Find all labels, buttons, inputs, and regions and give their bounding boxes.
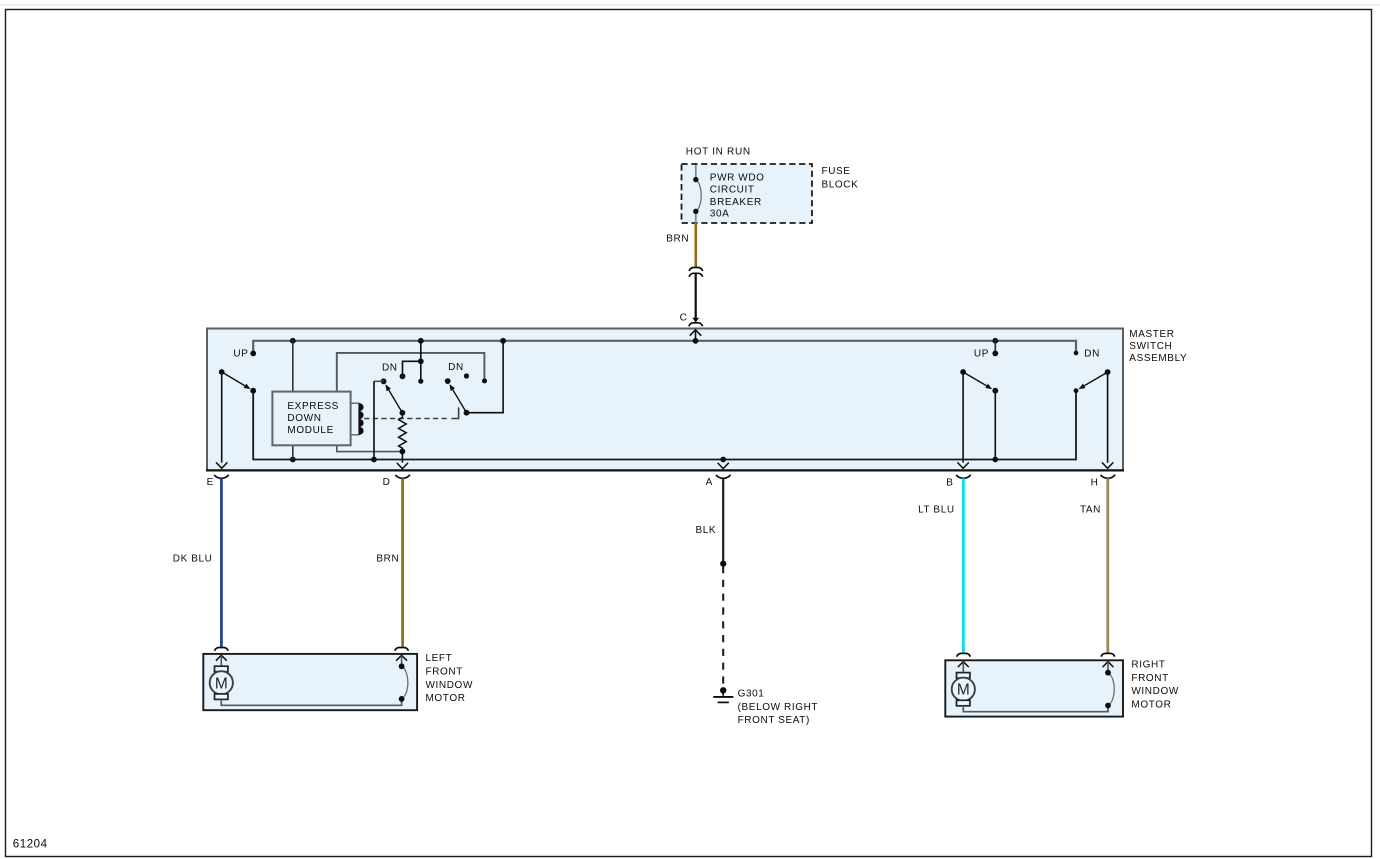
gray rail around DN switches [337, 353, 485, 392]
DN1 pivot riser to bottom bus [373, 381, 375, 459]
left UP contact dot [250, 351, 256, 357]
wire BRN to motor [401, 478, 404, 646]
circuit breaker PWR WDO 30A [693, 165, 764, 224]
svg-text:EXPRESS: EXPRESS [287, 401, 339, 412]
DN1 switch pivot [381, 378, 387, 384]
right UP stub [994, 341, 996, 353]
wire LT BLU [962, 478, 965, 652]
svg-text:WINDOW: WINDOW [426, 680, 473, 691]
C entry arrow [690, 330, 701, 336]
module loop bottom wire [337, 445, 403, 451]
bottom bus junction dots [290, 457, 296, 463]
svg-text:H: H [1091, 477, 1099, 488]
svg-text:UP: UP [233, 348, 248, 359]
E exit arrow [216, 462, 227, 468]
svg-text:61204: 61204 [13, 839, 48, 851]
H exit arrow [1102, 462, 1113, 468]
svg-text:WINDOW: WINDOW [1131, 686, 1178, 697]
L wire to DN1 contact [403, 361, 421, 376]
svg-text:DN: DN [1084, 348, 1100, 359]
left motor right branch [401, 655, 403, 666]
relay coil on module [351, 402, 360, 404]
splice node [720, 561, 726, 567]
DN2 isolated contact [464, 373, 469, 378]
svg-text:DOWN: DOWN [287, 413, 321, 424]
dashed linkage to DN switch [364, 418, 449, 420]
svg-text:RIGHT: RIGHT [1131, 659, 1165, 670]
D exit arrow [397, 463, 408, 469]
left switch blade [222, 372, 245, 386]
svg-text:MODULE: MODULE [287, 425, 334, 436]
svg-text:FRONT: FRONT [426, 666, 463, 677]
DN2 blade [453, 390, 467, 413]
left motor bottom wire [221, 699, 401, 705]
svg-text:A: A [706, 477, 713, 488]
fuse block box [682, 164, 813, 223]
svg-text:HOT IN RUN: HOT IN RUN [686, 147, 751, 158]
DN2 moving contact wire to bus [467, 341, 504, 413]
svg-text:LEFT: LEFT [426, 653, 453, 664]
svg-text:FUSE: FUSE [822, 166, 851, 177]
svg-text:MOTOR: MOTOR [1131, 700, 1171, 711]
svg-text:G301: G301 [738, 688, 765, 699]
svg-text:C: C [680, 313, 688, 324]
svg-text:BRN: BRN [666, 234, 689, 245]
svg-text:30A: 30A [710, 208, 730, 219]
wire TAN [1106, 478, 1109, 652]
DN1 blade [389, 390, 403, 413]
A exit arrow [718, 463, 729, 469]
wire BLK [722, 478, 724, 563]
svg-text:SWITCH: SWITCH [1129, 341, 1172, 352]
right motor bottom wire [963, 706, 1108, 712]
svg-text:DN: DN [448, 362, 464, 373]
svg-text:M: M [215, 675, 228, 692]
svg-text:LT BLU: LT BLU [918, 504, 955, 515]
H switch pivot [1105, 369, 1111, 375]
svg-text:FRONT: FRONT [1131, 673, 1168, 684]
right front window motor box [945, 660, 1123, 716]
right motor right branch [1107, 662, 1109, 673]
resistor [399, 413, 407, 452]
svg-text:CIRCUIT: CIRCUIT [710, 185, 755, 196]
svg-text:UP: UP [974, 348, 989, 359]
svg-text:FRONT SEAT): FRONT SEAT) [738, 715, 810, 726]
DN2 pivot [445, 378, 451, 384]
svg-text:E: E [207, 477, 214, 488]
right motor connector hats [957, 653, 971, 656]
bottom bus [253, 391, 1076, 460]
top bus [253, 341, 1076, 353]
svg-text:DK BLU: DK BLU [173, 554, 213, 565]
wire DK BLU [220, 478, 223, 646]
B switch pivot [960, 369, 966, 375]
top bus junction dots [290, 338, 296, 344]
svg-text:MASTER: MASTER [1129, 329, 1174, 340]
right motor M symbol [962, 662, 964, 673]
D feed wire from bus [420, 341, 422, 381]
svg-text:PWR WDO: PWR WDO [710, 172, 765, 183]
svg-text:MOTOR: MOTOR [426, 693, 466, 704]
left front window motor box [203, 654, 417, 710]
wire BLK to C [695, 274, 697, 319]
ground G301 [720, 687, 726, 693]
left switch lower contact [250, 388, 256, 394]
svg-text:D: D [383, 477, 391, 488]
right motor entry arrows [958, 662, 969, 668]
svg-text:BLOCK: BLOCK [822, 179, 859, 190]
svg-text:(BELOW RIGHT: (BELOW RIGHT [738, 702, 819, 713]
wire pivot to E output [221, 372, 223, 463]
express down module feed wire top [292, 341, 294, 392]
left motor entry arrows [216, 655, 227, 661]
connector C male/female at box edge [692, 318, 699, 323]
wire BRN from breaker [694, 224, 697, 267]
svg-text:ASSEMBLY: ASSEMBLY [1129, 353, 1187, 364]
express down module box [272, 392, 350, 446]
B riser to bottom bus [994, 391, 996, 460]
H pivot drop [1107, 372, 1109, 463]
left switch pivot [219, 369, 225, 375]
svg-text:TAN: TAN [1080, 504, 1101, 515]
svg-text:B: B [946, 477, 953, 488]
inline connector (two hats) [689, 268, 703, 272]
D output wire [401, 451, 403, 462]
left motor connector hats [215, 648, 229, 651]
express down module feed wire bottom [292, 445, 294, 459]
rail end contact dot [482, 378, 487, 383]
dashed BLK wire to ground [722, 566, 724, 687]
B exit arrow [957, 462, 968, 468]
svg-text:BRN: BRN [376, 554, 399, 565]
left motor M symbol [220, 655, 222, 666]
B pivot drop [962, 372, 964, 463]
master switch assembly box [207, 329, 1123, 471]
svg-text:BREAKER: BREAKER [710, 197, 762, 208]
svg-text:DN: DN [382, 363, 398, 374]
svg-text:BLK: BLK [695, 525, 716, 536]
svg-text:M: M [957, 682, 970, 699]
